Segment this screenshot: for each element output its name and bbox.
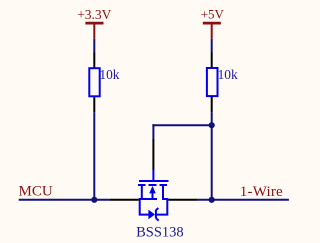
svg-text:+3.3V: +3.3V	[77, 7, 111, 22]
svg-text:MCU: MCU	[19, 184, 53, 200]
svg-text:BSS138: BSS138	[136, 224, 184, 240]
svg-text:+5V: +5V	[201, 7, 225, 22]
svg-text:1-Wire: 1-Wire	[240, 184, 283, 200]
svg-text:10k: 10k	[99, 67, 119, 82]
svg-text:10k: 10k	[218, 67, 238, 82]
